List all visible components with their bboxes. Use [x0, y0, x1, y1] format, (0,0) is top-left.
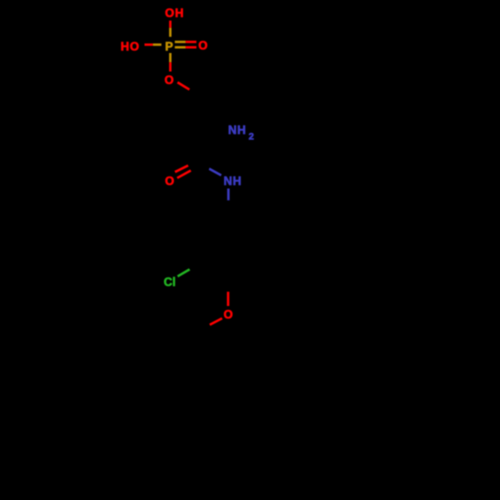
- bond HO-P right half (P side, olive): [153, 43, 162, 45]
- wire: bond Calpha-C(amide) (black): [198, 129, 216, 165]
- bond HO-P left half (O side, red): [145, 43, 153, 45]
- bond N-C1(ring) half (N side, blue): [227, 189, 229, 201]
- bond O-CH2(benzyl chain) half (O side, red): [210, 318, 222, 325]
- svg-text:OH: OH: [165, 6, 184, 20]
- wire: bond CH2-Calpha (black): [209, 100, 216, 130]
- wire: bond C4-O carbon half (black): [227, 269, 230, 292]
- bond C-N(amide) half (N side, blue): [209, 169, 221, 176]
- double bond P=O upper line, P half (olive): [175, 41, 186, 43]
- svg-text:Cl: Cl: [164, 275, 176, 289]
- wire: amide C=O carbon halves (black): [188, 162, 196, 166]
- svg-text:2: 2: [249, 131, 254, 142]
- wire: bond N-C1 ring half (black): [227, 200, 229, 218]
- bond P-O(ester) lower half (O side, red): [169, 62, 171, 71]
- bond P-O(ester) upper half (P side, olive): [169, 53, 171, 62]
- amide C=O main line, O half (red): [177, 170, 191, 178]
- wire: bond O-CH2 carbon half (black, invisible on bg): [190, 90, 210, 100]
- bond O-CH2 half (O side, red): [178, 82, 190, 89]
- bond P-OH upper half (O side, red): [169, 21, 171, 28]
- wire: bond Calpha-NH2 carbon half (black): [216, 129, 224, 131]
- svg-text:NH: NH: [228, 123, 246, 137]
- double bond P=O lower line, O half (red): [186, 46, 197, 48]
- amide C=O inner line, O half (red): [175, 165, 188, 172]
- double bond P=O upper line, O half (red): [186, 41, 197, 43]
- benzene ring C1-C2-C3-C4-C5-C6 (black, invisible): [207, 219, 251, 269]
- wire: bond O-CH2 benzyl carbon half (black): [191, 325, 209, 335]
- bond P-OH lower half (P side, olive): [169, 28, 171, 37]
- svg-text:NH: NH: [224, 174, 242, 188]
- svg-text:O: O: [198, 39, 207, 53]
- svg-text:O: O: [224, 308, 233, 322]
- svg-text:O: O: [165, 73, 174, 87]
- svg-text:P: P: [165, 40, 173, 54]
- bond C4(ring)-O half (O side, red): [227, 292, 229, 307]
- wire: bond C3-Cl carbon half (black): [190, 256, 207, 269]
- double bond P=O lower line, P half (olive): [175, 46, 186, 48]
- svg-text:O: O: [165, 174, 174, 188]
- svg-text:HO: HO: [121, 39, 140, 53]
- wire: alkyl chain below (black, invisible): [185, 335, 198, 407]
- wire: bond C(amide)-N carbon half (black): [198, 165, 209, 169]
- benzene inner double-bond lines (black): [211, 224, 248, 264]
- bond Cl-C3(ring) half (Cl side, green): [178, 269, 190, 276]
